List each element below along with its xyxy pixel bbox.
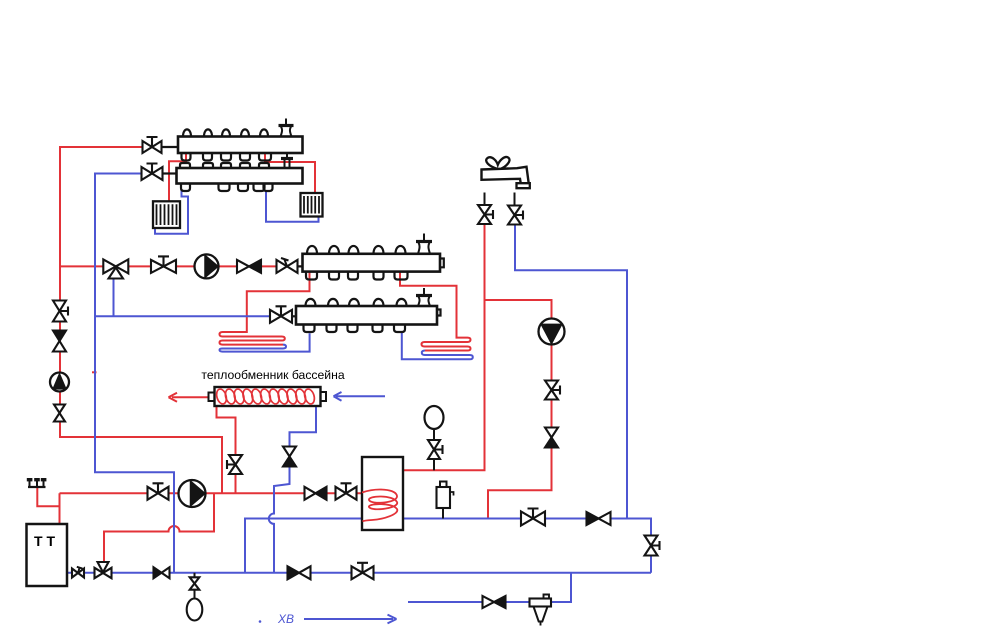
wire red manifold M3 drop to right floor coil: [400, 272, 471, 351]
expansion tank ET1: [425, 406, 444, 429]
wire red riser to boiler with drain branch: [37, 488, 59, 524]
pipe stub manifold M1 inlet: [161, 146, 178, 148]
svg-text:теплообменник бассейна: теплообменник бассейна: [201, 368, 344, 382]
manifold M4 body: [296, 306, 437, 325]
manifold M1 body: [178, 137, 303, 154]
manifold M3 right tab: [440, 259, 444, 268]
air vent on manifold M4: [423, 288, 425, 295]
wire blue pool return arrow: [334, 392, 386, 401]
svg-text:Т: Т: [47, 533, 56, 549]
manifold M4 top loops: [306, 299, 316, 306]
valve V3 on manifold M4 feed: [270, 310, 292, 323]
pipe stub manifold M3 inlet: [295, 265, 303, 267]
check valve CV3 pool return: [283, 447, 296, 457]
wire red drop from pool heat exchanger to supply line: [217, 406, 236, 493]
wire red DHW hot line from tank to faucet valve: [403, 224, 485, 471]
check valve CV2 left riser: [53, 331, 66, 342]
svg-text:Т: Т: [34, 533, 43, 549]
safety group component on cold line: [437, 487, 451, 508]
check valve CV6 bottom line: [288, 566, 300, 579]
pipe stub manifold M2 inlet: [162, 172, 177, 174]
wire blue feed to manifold M4: [95, 315, 271, 317]
wire blue bottom main line from boiler: [67, 572, 651, 574]
valve V4 heating row: [151, 260, 176, 273]
boiler B1 body: [27, 524, 68, 586]
check valve CV1 heating row: [237, 260, 249, 273]
wire red main supply line from boiler riser to DHW tank: [60, 492, 363, 494]
valve V2 on manifold M2 return: [142, 167, 163, 180]
faucet tap: [482, 167, 529, 185]
radiator RAD2: [301, 193, 323, 217]
wire red manifold M3 drop to left floor coil: [220, 272, 310, 345]
wire blue cold feed line to tank: [245, 519, 651, 573]
wire blue return of left floor coil to manifold M4: [220, 333, 310, 351]
wire red pool supply arrow: [169, 393, 210, 402]
manifold M3 body: [303, 254, 441, 272]
wire red boiler-return mixing line with hop over blue pipe: [104, 493, 214, 566]
check valve CV5 bottom line: [154, 567, 162, 578]
wire blue return riser from manifold M2 down to bottom line: [95, 174, 174, 574]
valve V11 supply line: [148, 487, 169, 500]
check valve CV4 supply line: [305, 487, 316, 500]
manifold M3 top loops: [307, 246, 317, 254]
three-way mixing valve TW2 at boiler return: [98, 562, 109, 572]
pump P2 left riser: [50, 373, 69, 392]
valve V6 left riser: [53, 301, 66, 322]
red heating coil inside tank T1: [362, 490, 397, 522]
valve V5 heating row: [277, 260, 298, 273]
manifold M2 body: [177, 168, 303, 184]
valve V12 at boiler outlet: [72, 569, 84, 578]
valve V17 hot to faucet: [484, 193, 486, 206]
wire stem safety group: [442, 508, 444, 519]
safety valve group above boiler: [28, 486, 46, 488]
node red junction tick: [92, 371, 97, 373]
manifold M4 bottom loops: [304, 325, 315, 333]
valve V15 cold feed: [521, 512, 545, 526]
DHW tank T1 body: [362, 457, 403, 530]
wire red DHW recirculation loop: [485, 300, 552, 519]
pump P3 boiler circuit: [179, 480, 206, 507]
valve V19 recirculation: [545, 381, 558, 400]
manifold M3 bottom loops: [306, 272, 317, 280]
wire blue cold water to faucet: [515, 224, 627, 519]
wire red heating row feed to manifold M3: [60, 265, 303, 267]
wire blue radiator RAD2 return to manifold M2: [266, 190, 319, 222]
manifold M4 right tab: [437, 310, 441, 316]
valve V7 left riser: [54, 405, 65, 422]
manifold M1 top loops: [183, 129, 191, 136]
svg-text:ХВ: ХВ: [277, 612, 294, 626]
wire blue radiator RAD1 return to manifold M2: [155, 190, 188, 234]
drain valve V13 with expansion vessel: [194, 573, 196, 577]
wire blue pool heat exchanger outlet: [290, 406, 317, 447]
pump P4 recirculation: [539, 319, 565, 345]
air vent on manifold M1: [285, 119, 287, 125]
valve V14 bottom line: [352, 566, 374, 579]
check valve CV7 cold feed: [587, 512, 599, 525]
pipe stub manifold M4 inlet: [292, 315, 296, 317]
node blue dot: [259, 620, 262, 623]
manifold M2 top stubs: [180, 163, 190, 168]
wire blue XB flow arrow: [304, 615, 397, 624]
manifold M1 bottom loops: [182, 153, 191, 161]
wire red left riser and top feed to manifold M1: [60, 147, 222, 493]
valve V8 under expansion tank: [428, 440, 440, 459]
valve V1 on manifold M1 feed: [143, 141, 162, 153]
manifold M2 bottom loops: [181, 184, 190, 192]
filter F1 cold inlet: [530, 599, 552, 607]
check valve CV8 cold inlet: [483, 596, 495, 608]
air vent on manifold M2: [285, 160, 290, 169]
valve V18 cold to faucet: [514, 193, 516, 207]
radiator RAD1: [153, 201, 180, 228]
red coil inside heat exchanger HX1: [215, 388, 228, 405]
valve V10 supply line: [336, 487, 357, 500]
wire red branch manifold M1 to radiator RAD2: [265, 153, 315, 193]
check valve CV9 recirculation: [545, 428, 558, 438]
pool heat exchanger HX1 body: [209, 393, 215, 402]
wire blue cold water inlet line XB: [408, 573, 571, 602]
pump P1 heating circulation: [195, 254, 219, 278]
valve V9 on heat exchanger drop: [229, 455, 242, 474]
air vent on manifold M3: [423, 234, 425, 241]
wire stem expansion tank: [433, 429, 435, 470]
valve V16 cold feed riser: [645, 536, 658, 556]
wire blue return of right floor coil to manifold M4: [402, 332, 473, 359]
wire blue pool heat exchanger return drop with hop: [269, 467, 290, 573]
three-way valve TW1: [103, 259, 128, 273]
wire blue drop from three-way valve TW1: [113, 273, 115, 317]
wire red branch manifold M1 to radiator RAD1: [169, 153, 186, 201]
